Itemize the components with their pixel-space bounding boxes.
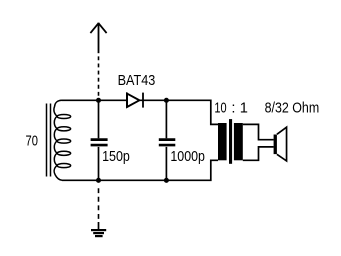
node A (top junction dot) [96,98,101,103]
svg-text:8/32 Ohm: 8/32 Ohm [265,100,320,116]
coil left chain [54,100,62,180]
svg-text:10: 10 [214,100,226,116]
svg-text:150p: 150p [102,149,130,165]
svg-text:1: 1 [240,100,248,116]
ground [91,222,106,236]
node C (bottom junction dot right) [164,178,169,183]
node B (junction dot above 1000p) [164,98,169,103]
wire (diode to transformer, top rail right) [140,100,219,124]
transformer T1 [218,119,274,164]
capacitor C2 1000p [159,100,176,180]
antenna dashed wire [98,56,100,97]
antenna arrow [90,23,106,54]
wire (bottom rail) [62,160,218,180]
coil core lines [46,104,48,177]
node A2 (bottom junction dot left) [96,178,101,183]
wire (top rail: coil to diode) [62,99,127,101]
svg-text:BAT43: BAT43 [118,73,156,89]
svg-text::: : [231,100,235,116]
svg-text:1000p: 1000p [170,149,205,165]
speaker LS1 [274,127,287,161]
ground dashed wire [98,188,100,222]
diode D1 BAT43 [127,93,143,108]
inductor L1 (coil, 70) [47,100,71,180]
svg-text:70: 70 [26,133,38,149]
capacitor C1 150p [91,100,108,180]
coil loop ellipses [57,114,71,118]
